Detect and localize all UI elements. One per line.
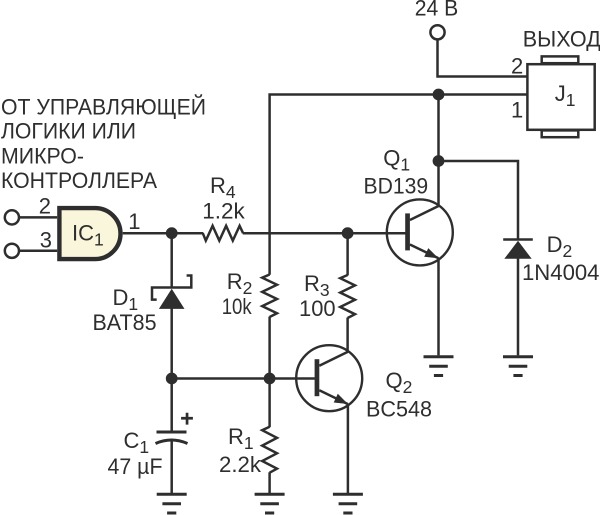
svg-text:МИКРО-: МИКРО- bbox=[1, 143, 84, 168]
svg-text:3: 3 bbox=[40, 228, 52, 253]
svg-text:100: 100 bbox=[299, 296, 336, 321]
wire 24V to J1 pin 2 bbox=[438, 39, 528, 76]
wire gate output to node A bbox=[123, 232, 172, 235]
resistor R3 100 bbox=[299, 271, 355, 321]
wire Q2 emitter to ground bbox=[347, 404, 350, 493]
svg-text:2.2k: 2.2k bbox=[219, 452, 262, 477]
resistor R4 1.2k bbox=[202, 173, 246, 241]
svg-text:47 µF: 47 µF bbox=[108, 454, 163, 479]
svg-text:R1: R1 bbox=[228, 424, 254, 453]
wire R1 to ground bbox=[268, 472, 271, 493]
wire node F to D2 cathode bbox=[439, 161, 519, 239]
input terminal pin 2 bbox=[5, 210, 19, 224]
wire node C down to C1 bbox=[170, 379, 173, 432]
resistor R2 10k bbox=[222, 269, 277, 319]
wire node D down to R1 bbox=[268, 379, 271, 428]
wire C1 to ground bbox=[170, 441, 173, 493]
wire node E down to node F bbox=[437, 95, 440, 162]
wire node D to Q2 base bbox=[270, 377, 315, 380]
ground (under Q1) bbox=[424, 357, 454, 376]
node F junction bbox=[433, 155, 445, 167]
ground (under R1) bbox=[255, 494, 285, 513]
svg-text:24 В: 24 В bbox=[415, 0, 459, 21]
wire top-rail riser (R2 top to rail corner) bbox=[270, 95, 528, 275]
svg-text:D2: D2 bbox=[547, 232, 573, 261]
svg-text:BAT85: BAT85 bbox=[93, 310, 157, 335]
terminal 24V bbox=[415, 0, 459, 39]
wire node F to Q1 collector bbox=[437, 161, 440, 206]
transistor Q2 BC548 bbox=[296, 345, 432, 421]
wire node B to Q1 base bbox=[348, 232, 406, 235]
svg-text:Q1: Q1 bbox=[383, 146, 410, 175]
node B junction bbox=[342, 227, 354, 239]
wire Q1 emitter to ground bbox=[437, 258, 440, 355]
input terminal pin 3 bbox=[5, 244, 19, 258]
svg-text:1.2k: 1.2k bbox=[202, 198, 246, 223]
svg-text:10k: 10k bbox=[222, 294, 253, 319]
connector J1 relay output bbox=[527, 56, 594, 137]
svg-text:C1: C1 bbox=[124, 428, 150, 457]
wire input pin 3 to gate bbox=[19, 250, 57, 253]
AND gate IC1 bbox=[59, 208, 120, 259]
svg-text:BC548: BC548 bbox=[366, 396, 432, 421]
wire input pin 2 to gate bbox=[19, 216, 57, 219]
svg-text:2: 2 bbox=[39, 194, 51, 219]
wire R4 to node B bbox=[243, 232, 348, 235]
wire node B down to R3 bbox=[346, 233, 349, 275]
diode D1 BAT85 (Schottky, cathode up) bbox=[93, 276, 192, 336]
capacitor C1 47uF (polarized) bbox=[108, 413, 193, 479]
node D junction bbox=[264, 373, 276, 385]
wire R2 bottom to node D bbox=[268, 317, 271, 379]
resistor R1 2.2k bbox=[219, 424, 277, 477]
diode D2 1N4004 (cathode up) bbox=[503, 232, 599, 285]
wire node C to node D bbox=[172, 377, 270, 380]
svg-text:КОНТРОЛЛЕРА: КОНТРОЛЛЕРА bbox=[1, 168, 157, 193]
svg-text:ОТ УПРАВЛЯЮЩЕЙ: ОТ УПРАВЛЯЮЩЕЙ bbox=[1, 95, 206, 120]
node E junction (rail) bbox=[433, 89, 445, 101]
svg-text:ЛОГИКИ ИЛИ: ЛОГИКИ ИЛИ bbox=[1, 119, 136, 144]
svg-text:1N4004: 1N4004 bbox=[522, 260, 600, 285]
svg-text:Q2: Q2 bbox=[386, 368, 413, 397]
wire D1 anode to node C bbox=[170, 309, 173, 379]
svg-text:ВЫХОД: ВЫХОД bbox=[523, 27, 600, 52]
annotation: source text "ОТ УПРАВЛЯЮЩЕЙ ЛОГИКИ ИЛИ МИКРО-КОНТРОЛЛЕРА" bbox=[1, 95, 206, 194]
wire node A down to D1 cathode bbox=[170, 233, 173, 287]
wire D2 anode to ground bbox=[517, 258, 520, 355]
node A junction bbox=[166, 227, 178, 239]
wire R3 to Q2 collector bbox=[346, 318, 349, 352]
ground (under Q2) bbox=[333, 494, 363, 513]
ground (under C1) bbox=[157, 494, 187, 513]
svg-text:1: 1 bbox=[128, 209, 140, 234]
svg-text:2: 2 bbox=[511, 53, 523, 78]
node C junction bbox=[166, 373, 178, 385]
ground (under D2) bbox=[503, 357, 533, 376]
svg-text:BD139: BD139 bbox=[364, 173, 429, 198]
transistor Q1 BD139 bbox=[364, 146, 453, 266]
wire node A to R4 bbox=[172, 232, 204, 235]
svg-text:1: 1 bbox=[511, 98, 523, 123]
